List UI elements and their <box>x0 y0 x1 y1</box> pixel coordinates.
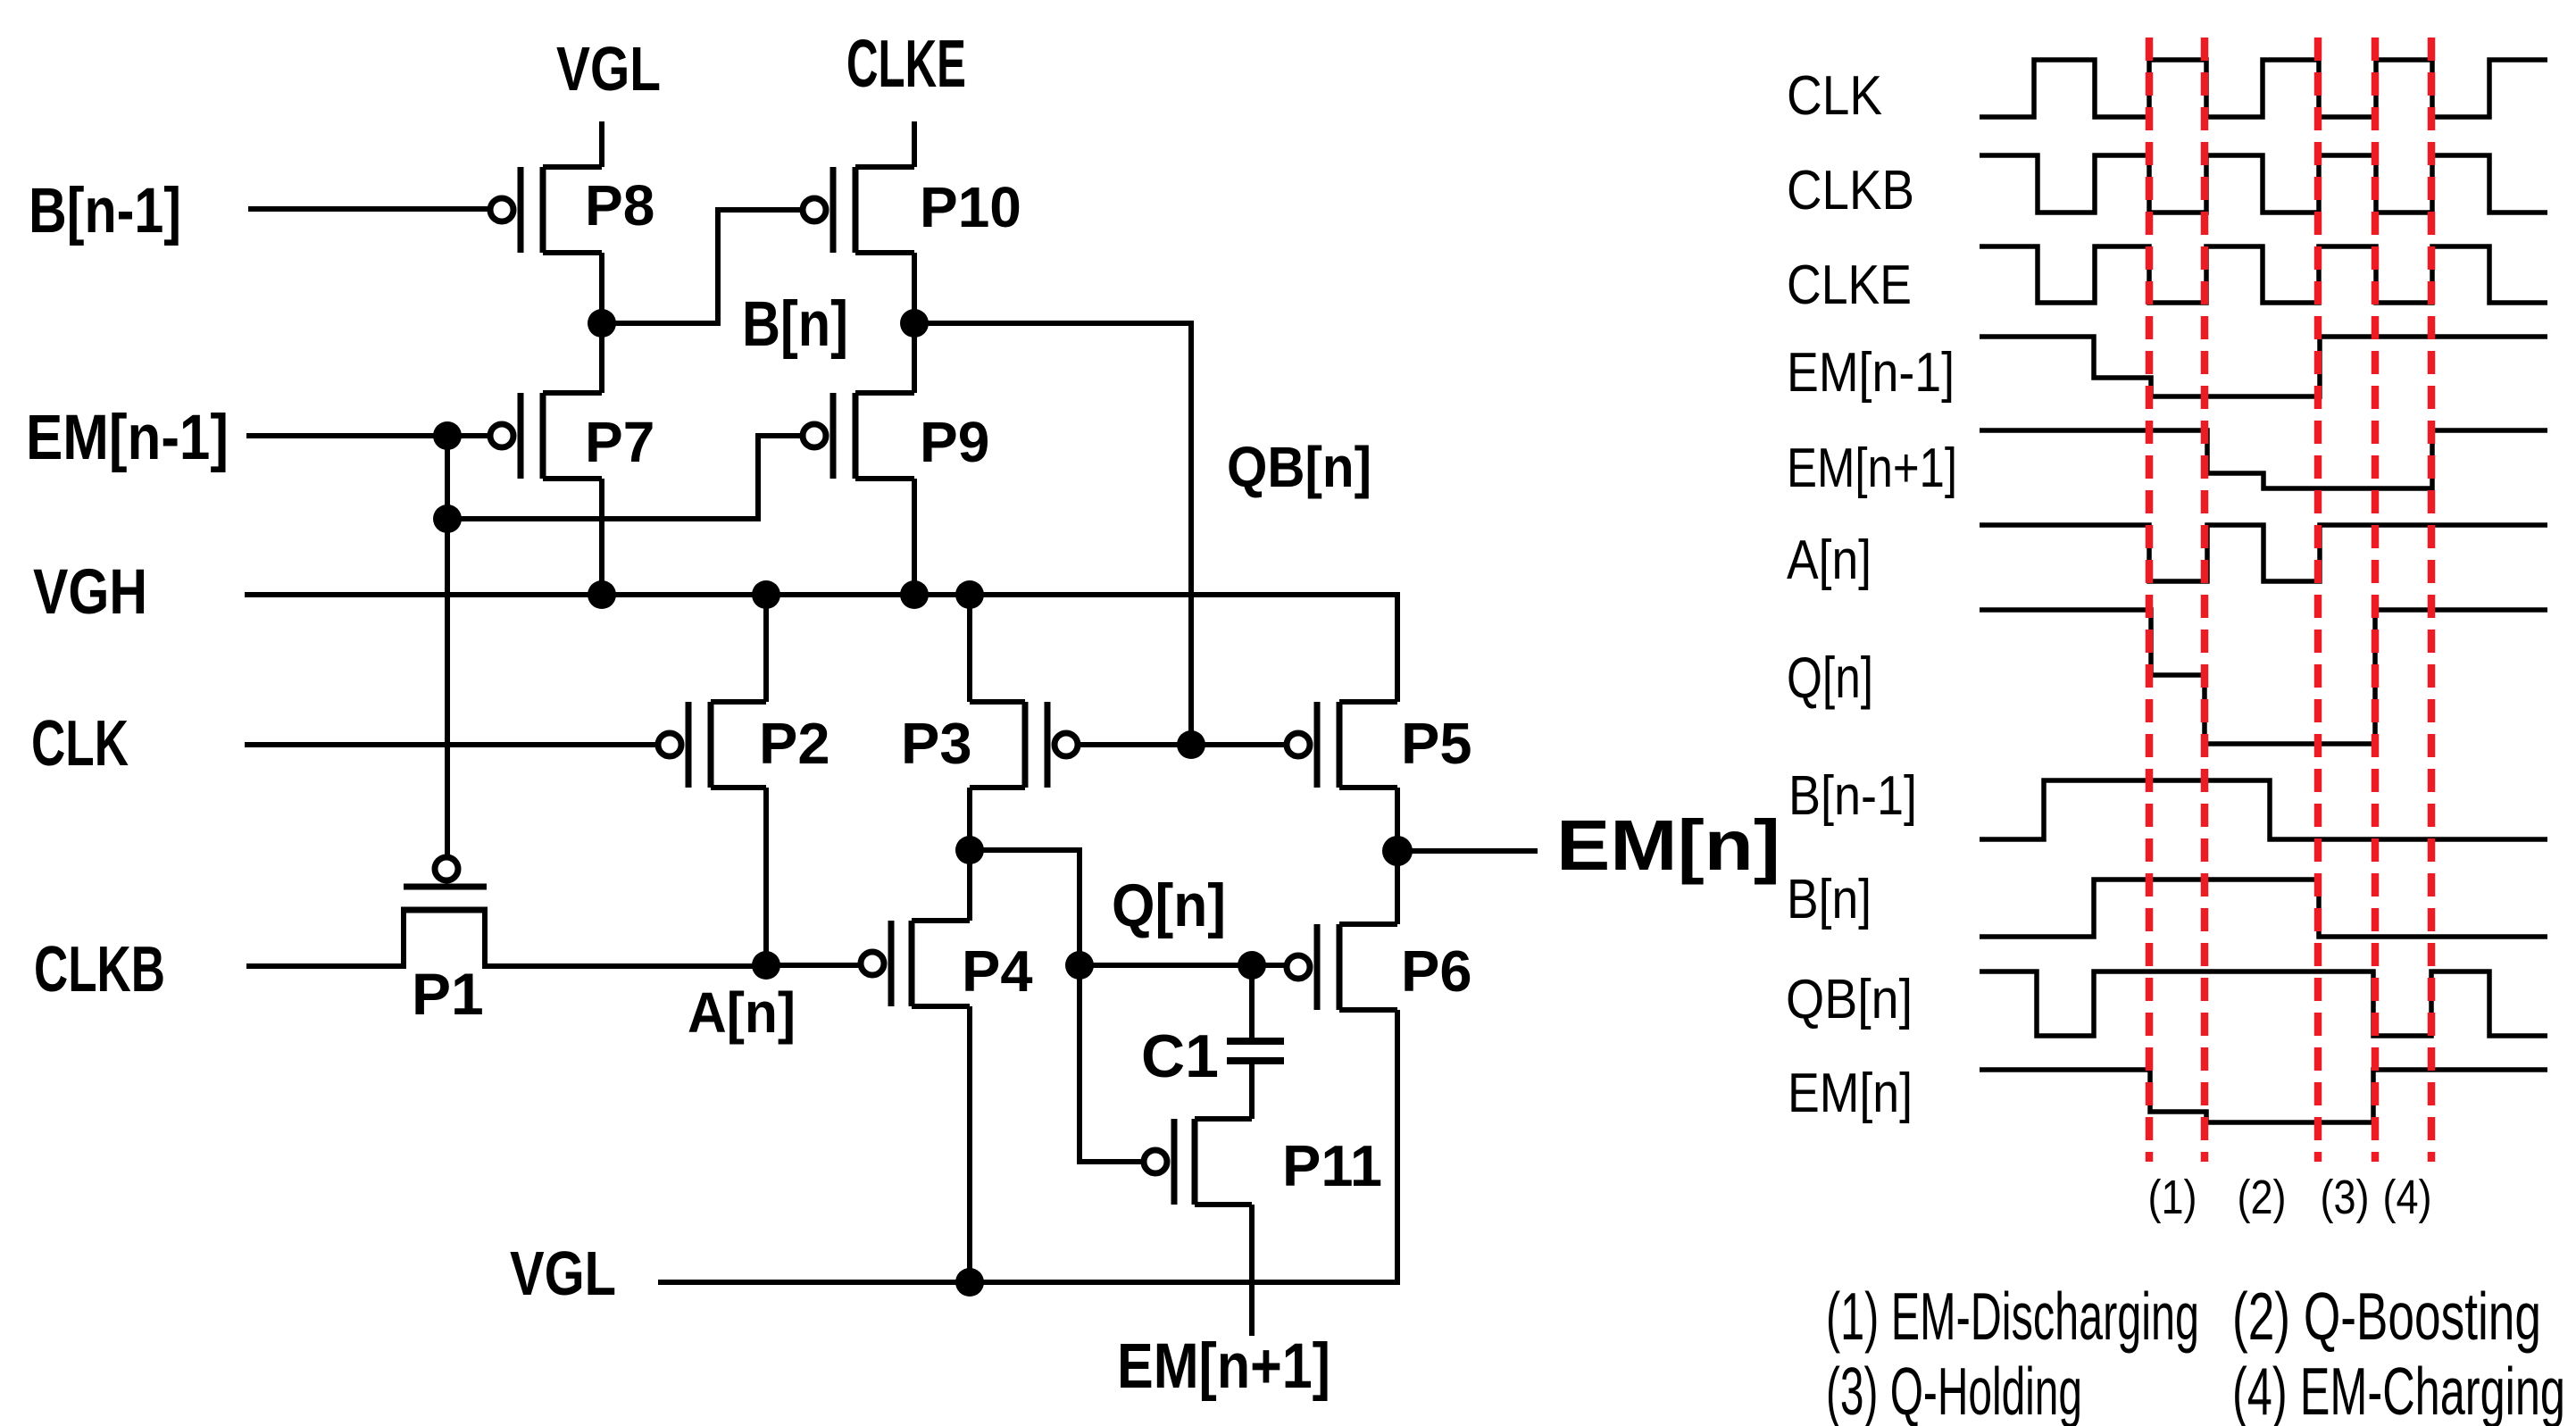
svg-text:(4): (4) <box>2383 1171 2432 1224</box>
svg-text:CLK: CLK <box>1787 65 1882 127</box>
svg-text:EM[n-1]: EM[n-1] <box>26 403 229 473</box>
svg-text:CLK: CLK <box>31 708 129 780</box>
svg-text:(2) Q-Boosting: (2) Q-Boosting <box>2232 1279 2541 1354</box>
svg-text:P2: P2 <box>759 711 830 776</box>
svg-text:B[n]: B[n] <box>1787 869 1872 930</box>
svg-text:P10: P10 <box>920 175 1021 239</box>
svg-text:EM[n]: EM[n] <box>1788 1063 1913 1124</box>
svg-text:CLKE: CLKE <box>1787 254 1912 316</box>
svg-text:EM[n+1]: EM[n+1] <box>1787 438 1957 499</box>
svg-text:EM[n+1]: EM[n+1] <box>1117 1331 1330 1402</box>
svg-text:(3): (3) <box>2321 1171 2370 1224</box>
svg-text:B[n-1]: B[n-1] <box>29 176 181 246</box>
svg-text:P9: P9 <box>920 410 989 474</box>
svg-text:B[n]: B[n] <box>742 289 848 360</box>
svg-text:Q[n]: Q[n] <box>1112 871 1226 939</box>
svg-text:P5: P5 <box>1401 711 1472 776</box>
svg-text:A[n]: A[n] <box>688 980 796 1045</box>
svg-text:(3) Q-Holding: (3) Q-Holding <box>1826 1354 2082 1426</box>
svg-text:EM[n]: EM[n] <box>1556 805 1780 885</box>
svg-text:Q[n]: Q[n] <box>1787 645 1873 710</box>
svg-text:P3: P3 <box>901 711 972 776</box>
svg-text:QB[n]: QB[n] <box>1786 969 1913 1030</box>
svg-text:CLKB: CLKB <box>1787 160 1914 221</box>
svg-text:(4) EM-Charging: (4) EM-Charging <box>2232 1354 2565 1426</box>
svg-text:(1) EM-Discharging: (1) EM-Discharging <box>1826 1279 2199 1354</box>
svg-text:QB[n]: QB[n] <box>1227 435 1371 499</box>
svg-text:P8: P8 <box>585 173 654 238</box>
svg-text:CLKB: CLKB <box>34 934 165 1005</box>
svg-text:P11: P11 <box>1282 1133 1382 1198</box>
svg-text:VGL: VGL <box>556 34 661 104</box>
svg-text:VGL: VGL <box>510 1238 616 1308</box>
svg-text:(2): (2) <box>2238 1171 2287 1224</box>
svg-text:VGH: VGH <box>33 557 147 628</box>
svg-text:A[n]: A[n] <box>1787 530 1872 591</box>
svg-text:CLKE: CLKE <box>846 26 966 101</box>
svg-text:C1: C1 <box>1141 1022 1219 1090</box>
svg-text:P7: P7 <box>585 410 654 474</box>
svg-text:(1): (1) <box>2148 1171 2197 1224</box>
svg-text:B[n-1]: B[n-1] <box>1788 765 1917 827</box>
svg-text:P1: P1 <box>412 961 484 1027</box>
svg-text:P6: P6 <box>1401 938 1472 1004</box>
svg-text:P4: P4 <box>962 938 1033 1004</box>
svg-text:EM[n-1]: EM[n-1] <box>1787 342 1955 404</box>
